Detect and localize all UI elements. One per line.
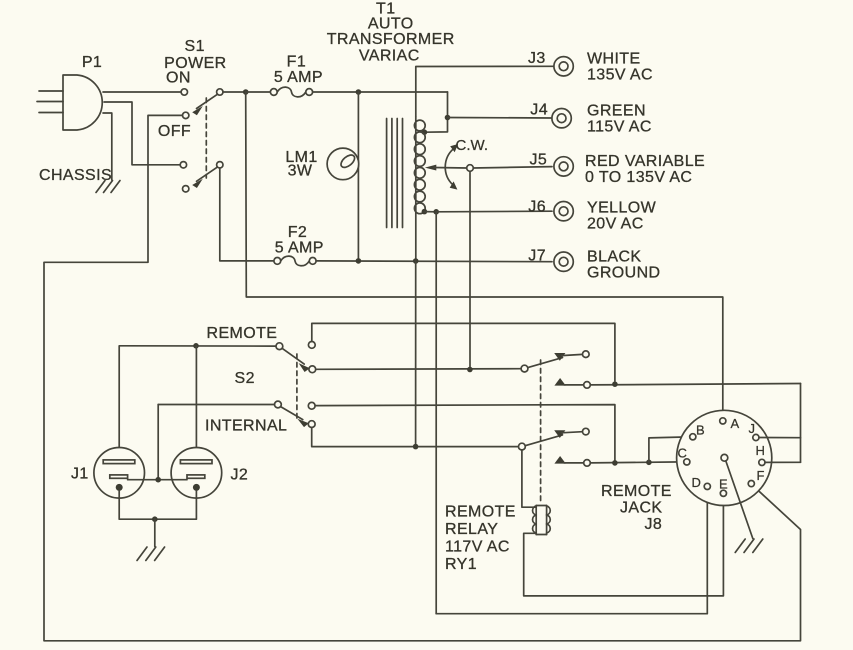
relay lower contact pole [519,435,563,450]
node junction J4 [445,115,451,121]
wire B branch riser [649,437,690,462]
node junction LM1 bottom [356,258,362,264]
jack J6 [554,202,573,221]
svg-text:20V AC: 20V AC [587,216,644,233]
svg-text:H: H [756,443,765,458]
svg-text:RED VARIABLE: RED VARIABLE [585,153,705,170]
svg-text:0 TO 135V AC: 0 TO 135V AC [585,169,692,186]
wire 20V tap to junction [424,211,436,213]
svg-text:REMOTE: REMOTE [445,504,516,521]
svg-text:REMOTE: REMOTE [601,483,672,500]
svg-text:J3: J3 [528,50,546,67]
jack J7 [554,252,573,271]
wire pin H to riser [765,461,801,463]
relay upper contact pole [521,358,562,372]
svg-text:F2: F2 [288,224,307,241]
wire plug to S1 ON contact [103,91,181,93]
wire S1 pole2 down to F2 [220,168,274,261]
switch S2 pole lower [275,401,309,427]
node junction B branch [646,460,652,466]
svg-text:JACK: JACK [620,500,663,517]
pin center [721,454,728,461]
svg-text:VARIAC: VARIAC [359,48,420,65]
svg-text:5 AMP: 5 AMP [274,69,323,86]
svg-text:WHITE: WHITE [587,51,641,68]
relay mechanical link (dashed) [540,360,542,505]
svg-text:ON: ON [166,70,191,87]
wire ground stem [154,519,156,546]
node tap 115V [422,129,428,135]
svg-text:S1: S1 [185,38,205,55]
wire hot feed down and across to pin A [246,92,723,418]
pin B [690,434,696,440]
plug P1 [37,75,102,130]
svg-text:OFF: OFF [158,123,191,140]
jack J5 [554,157,573,176]
wire INTERNAL riser to J1/J2 link [157,405,159,480]
svg-text:D: D [692,475,701,490]
node junction 20V [433,209,439,215]
svg-text:RELAY: RELAY [445,521,498,538]
relay coil RY1 [533,506,551,535]
svg-text:5 AMP: 5 AMP [275,240,324,257]
wire S1 OFF contact to left rail and bottom rail to F drop [44,115,801,640]
node tap 20V [422,209,428,215]
wire plug second prong to S1 lower contact [104,102,180,165]
fuse F1 [270,87,312,97]
wire coil bottom to pin E [524,496,724,596]
node junction LM1 top [356,89,362,95]
svg-text:J7: J7 [528,248,546,265]
svg-text:F1: F1 [287,54,306,71]
wire J1/J2 sleeves to ground [119,491,196,519]
wire J1-J2 ring link [128,479,187,481]
svg-text:YELLOW: YELLOW [587,200,657,217]
svg-text:F: F [757,468,765,483]
wire plug to chassis ground [103,113,112,180]
node junction winding bottom [413,258,419,264]
svg-text:J1: J1 [71,466,89,483]
svg-text:C: C [678,446,687,461]
svg-text:J2: J2 [231,467,249,484]
transformer T1 core [387,119,403,228]
wire S1 pole1 to junction [223,91,246,93]
switch S2 lower contacts [308,402,315,427]
wire relay upper NO to J/H riser [590,384,800,385]
wire INTERNAL pole wire [158,404,274,406]
pin E [720,490,726,496]
switch S1 pole 1 [181,89,223,115]
svg-text:J4: J4 [530,102,548,119]
svg-text:3W: 3W [288,163,313,180]
wire wiper down to remote switch row [469,171,471,369]
ground symbol J8 [735,539,763,553]
node junction internal feed [413,444,419,450]
wire S2 internal lower contact down and to relay lower pole [312,428,519,447]
C.W. rotation arrow [445,144,458,190]
transformer T1 winding [414,117,425,261]
wire J1 riser and REMOTE pole wire [119,346,276,460]
node junction NC riser bottom [612,460,618,466]
fuse F2 [274,256,316,266]
svg-text:GREEN: GREEN [587,103,646,120]
svg-text:J8: J8 [645,516,663,533]
wire to jack J4 [448,117,553,120]
switch S2 upper contacts [308,342,315,373]
node junction wiper feed [467,367,473,373]
relay lower NC contact [554,428,589,438]
svg-text:AUTO: AUTO [368,16,414,33]
switch S1 OFF contact [183,112,189,118]
svg-text:J5: J5 [530,152,548,169]
svg-text:115V AC: 115V AC [587,119,652,136]
svg-text:E: E [719,477,728,492]
wire S2 internal upper contact to relay NC riser [315,405,615,463]
switch S2 pole upper [276,343,310,372]
relay upper NO contact [554,378,590,388]
wire J2 riser [195,346,197,460]
pin A [720,418,726,424]
lamp LM1 branch wire [357,92,359,261]
wiper arrow and wire to J5 [425,165,552,172]
wire to jack J6 [436,210,552,213]
wire junction to F1 [246,91,271,93]
wire F2 to jack J7 (ground bus) [316,260,552,263]
relay lower NO contact [554,456,590,466]
svg-text:B: B [696,423,705,438]
svg-text:S2: S2 [235,370,255,387]
svg-text:RY1: RY1 [445,556,477,573]
node junction hot [243,89,249,95]
wire J/H riser down right side [800,384,802,463]
svg-text:C.W.: C.W. [456,137,489,154]
chassis ground symbol [96,181,120,193]
pin J [753,434,759,440]
svg-text:GROUND: GROUND [587,265,661,282]
svg-text:BLACK: BLACK [587,249,641,266]
jack J4 [552,109,571,128]
node junction NO / riser [612,381,618,387]
connector J2 [171,448,222,499]
svg-text:J6: J6 [528,199,546,216]
node junction sleeve ground [152,516,158,522]
wire center pin to chassis ground [726,461,753,539]
svg-text:INTERNAL: INTERNAL [205,418,287,435]
wire S2 remote contact riser across to J/H riser [312,323,615,381]
wire winding bottom down to internal feed row [415,261,417,447]
switch S1 mechanical link (dashed) [205,98,207,178]
relay upper NC contact [554,351,589,361]
svg-text:135V AC: 135V AC [587,67,653,84]
pin D [704,483,710,489]
wire 20V junction down to pin D row [435,212,437,614]
wire pin J to riser [759,437,801,439]
pin F [748,481,754,487]
svg-text:REMOTE: REMOTE [207,325,278,342]
wire winding top riser to J3 [416,66,554,116]
svg-text:A: A [731,416,740,431]
svg-text:P1: P1 [82,54,102,71]
wire F1 corner down to 115V tap and J4 [425,92,448,132]
wire relay pole drop to coil top [522,450,536,507]
ground symbol J1/J2 [137,547,165,561]
wire S2 wiper contact to relay upper pole [316,368,521,371]
svg-text:J: J [749,421,756,436]
pin H [759,459,765,465]
pin C [684,459,690,465]
switch S1 pole 2 [180,162,223,192]
node junction J2 riser [193,343,199,349]
jack J3 [554,57,573,76]
connector J1 [94,448,145,499]
svg-text:TRANSFORMER: TRANSFORMER [327,31,455,48]
wire F1 to corner [313,91,448,93]
svg-text:CHASSIS: CHASSIS [39,167,112,184]
connector J8 shell [677,410,772,505]
switch S2 mechanical link (dashed) [296,354,298,419]
wire pin D drop to 20V feed [436,490,707,614]
lamp LM1 [327,148,359,180]
svg-text:117V AC: 117V AC [445,539,510,556]
wire relay lower NO to pin C [590,462,683,463]
node junction ring link [155,477,161,483]
